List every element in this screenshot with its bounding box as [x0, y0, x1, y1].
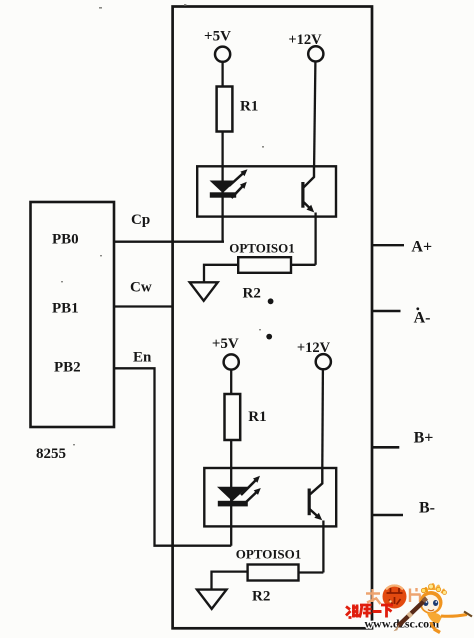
terminal stub A+: [372, 244, 404, 246]
svg-text:Cw: Cw: [130, 280, 152, 296]
continuation dot 1: [268, 298, 274, 304]
char 维: [346, 605, 359, 618]
char 库: [360, 605, 372, 618]
svg-text:A+: A+: [411, 239, 432, 256]
supply +5V terminal (upper): [204, 29, 231, 87]
faded tagline char 片: [410, 588, 421, 602]
red chip ball with 芯: [383, 585, 407, 609]
svg-text:+5V: +5V: [212, 336, 239, 352]
svg-text:R2: R2: [243, 286, 261, 302]
phototransistor Q2 (lower): [309, 468, 323, 573]
supply +12V terminal (lower): [297, 340, 331, 468]
svg-text:B+: B+: [414, 429, 434, 446]
terminal stub B+: [372, 446, 399, 449]
svg-text:R1: R1: [240, 99, 258, 115]
svg-text:OPTOISO1: OPTOISO1: [229, 241, 295, 256]
char 一: [373, 610, 382, 613]
mascot body arm leg: [427, 612, 472, 633]
svg-text:R2: R2: [252, 589, 270, 605]
faded tagline char 我: [366, 589, 381, 604]
char 下: [381, 605, 393, 618]
svg-text:8255: 8255: [36, 446, 66, 462]
resistor R2 (lower): [248, 565, 299, 605]
terminal stub A-: [372, 310, 401, 313]
resistor R1 (upper): [217, 87, 259, 132]
continuation dot 2: [266, 334, 272, 340]
mascot pencil: [394, 598, 427, 631]
optocoupler U1 box (upper): [197, 166, 336, 216]
wire R2 left to ground (lower): [212, 572, 248, 590]
svg-text:R1: R1: [248, 409, 266, 425]
resistor R2 (upper): [238, 257, 291, 301]
LED of optocoupler (lower): [217, 487, 248, 507]
svg-text:PB1: PB1: [52, 301, 79, 317]
light emission arrows (lower): [241, 476, 261, 505]
wire Cw from PB1 to board edge: [114, 305, 174, 307]
supply +12V terminal (upper): [288, 32, 323, 166]
wire R2 left to ground (upper): [204, 265, 238, 283]
svg-text:PB0: PB0: [52, 232, 79, 248]
IC 8255 box: [31, 202, 115, 427]
watermark logo dzsc: [346, 583, 472, 633]
wire R1 to LED (lower): [230, 440, 232, 546]
svg-text:OPTOISO1: OPTOISO1: [236, 547, 302, 562]
terminal stub B-: [372, 514, 403, 517]
wire R2 right to emitter (upper): [291, 264, 316, 266]
svg-text:Cp: Cp: [131, 212, 150, 228]
wire R2 right to emitter (lower): [299, 571, 324, 573]
svg-text:+5V: +5V: [204, 29, 231, 45]
resistor R1 (lower): [225, 394, 267, 440]
wire R1 to LED anode and cathode down to Cp (upper): [221, 132, 223, 242]
outer driver board box: [173, 7, 372, 629]
mascot face: [420, 591, 443, 614]
supply +5V terminal (lower): [212, 336, 239, 394]
paper speckles: [61, 4, 264, 445]
svg-text:PB2: PB2: [54, 360, 81, 376]
terminal label A-: [414, 307, 431, 326]
wire Cp from PB0 to LED cathode: [114, 241, 224, 243]
svg-text:En: En: [133, 350, 152, 366]
svg-text:A-: A-: [414, 310, 431, 327]
svg-text:B-: B-: [419, 499, 435, 516]
phototransistor Q1 (upper): [303, 166, 316, 264]
light emission arrows (upper): [229, 169, 248, 198]
mascot crown head: [421, 583, 446, 595]
wire En from PB2 down to lower LED cathode: [114, 368, 231, 545]
ground symbol (lower): [197, 590, 227, 609]
ground symbol (upper): [190, 282, 218, 301]
LED of optocoupler (upper): [210, 181, 237, 198]
optocoupler U2 box (lower): [204, 468, 336, 526]
red wordmark 维库一下: [346, 605, 393, 618]
